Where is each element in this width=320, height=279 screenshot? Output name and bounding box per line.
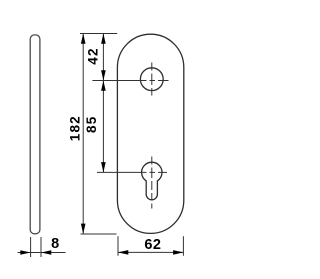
- dim line 182: [82, 34, 84, 234]
- svg-text:182: 182: [68, 115, 83, 141]
- extension line bottom: [81, 233, 117, 235]
- svg-text:85: 85: [84, 116, 99, 133]
- front view plate (62x182 stadium): [117, 34, 183, 233]
- side view plate (8mm profile): [30, 35, 40, 234]
- svg-text:8: 8: [51, 236, 59, 252]
- euro profile keyhole: [142, 162, 162, 200]
- svg-text:62: 62: [144, 237, 161, 253]
- handle hole centerlines: [92, 80, 168, 82]
- svg-text:42: 42: [86, 47, 101, 64]
- dim 8: [31, 237, 41, 257]
- keyhole centerlines: [97, 171, 167, 173]
- handle hole: [140, 68, 163, 91]
- extension line top: [80, 33, 117, 35]
- dim 62: [118, 236, 183, 256]
- dim line 42 / 85: [102, 34, 104, 173]
